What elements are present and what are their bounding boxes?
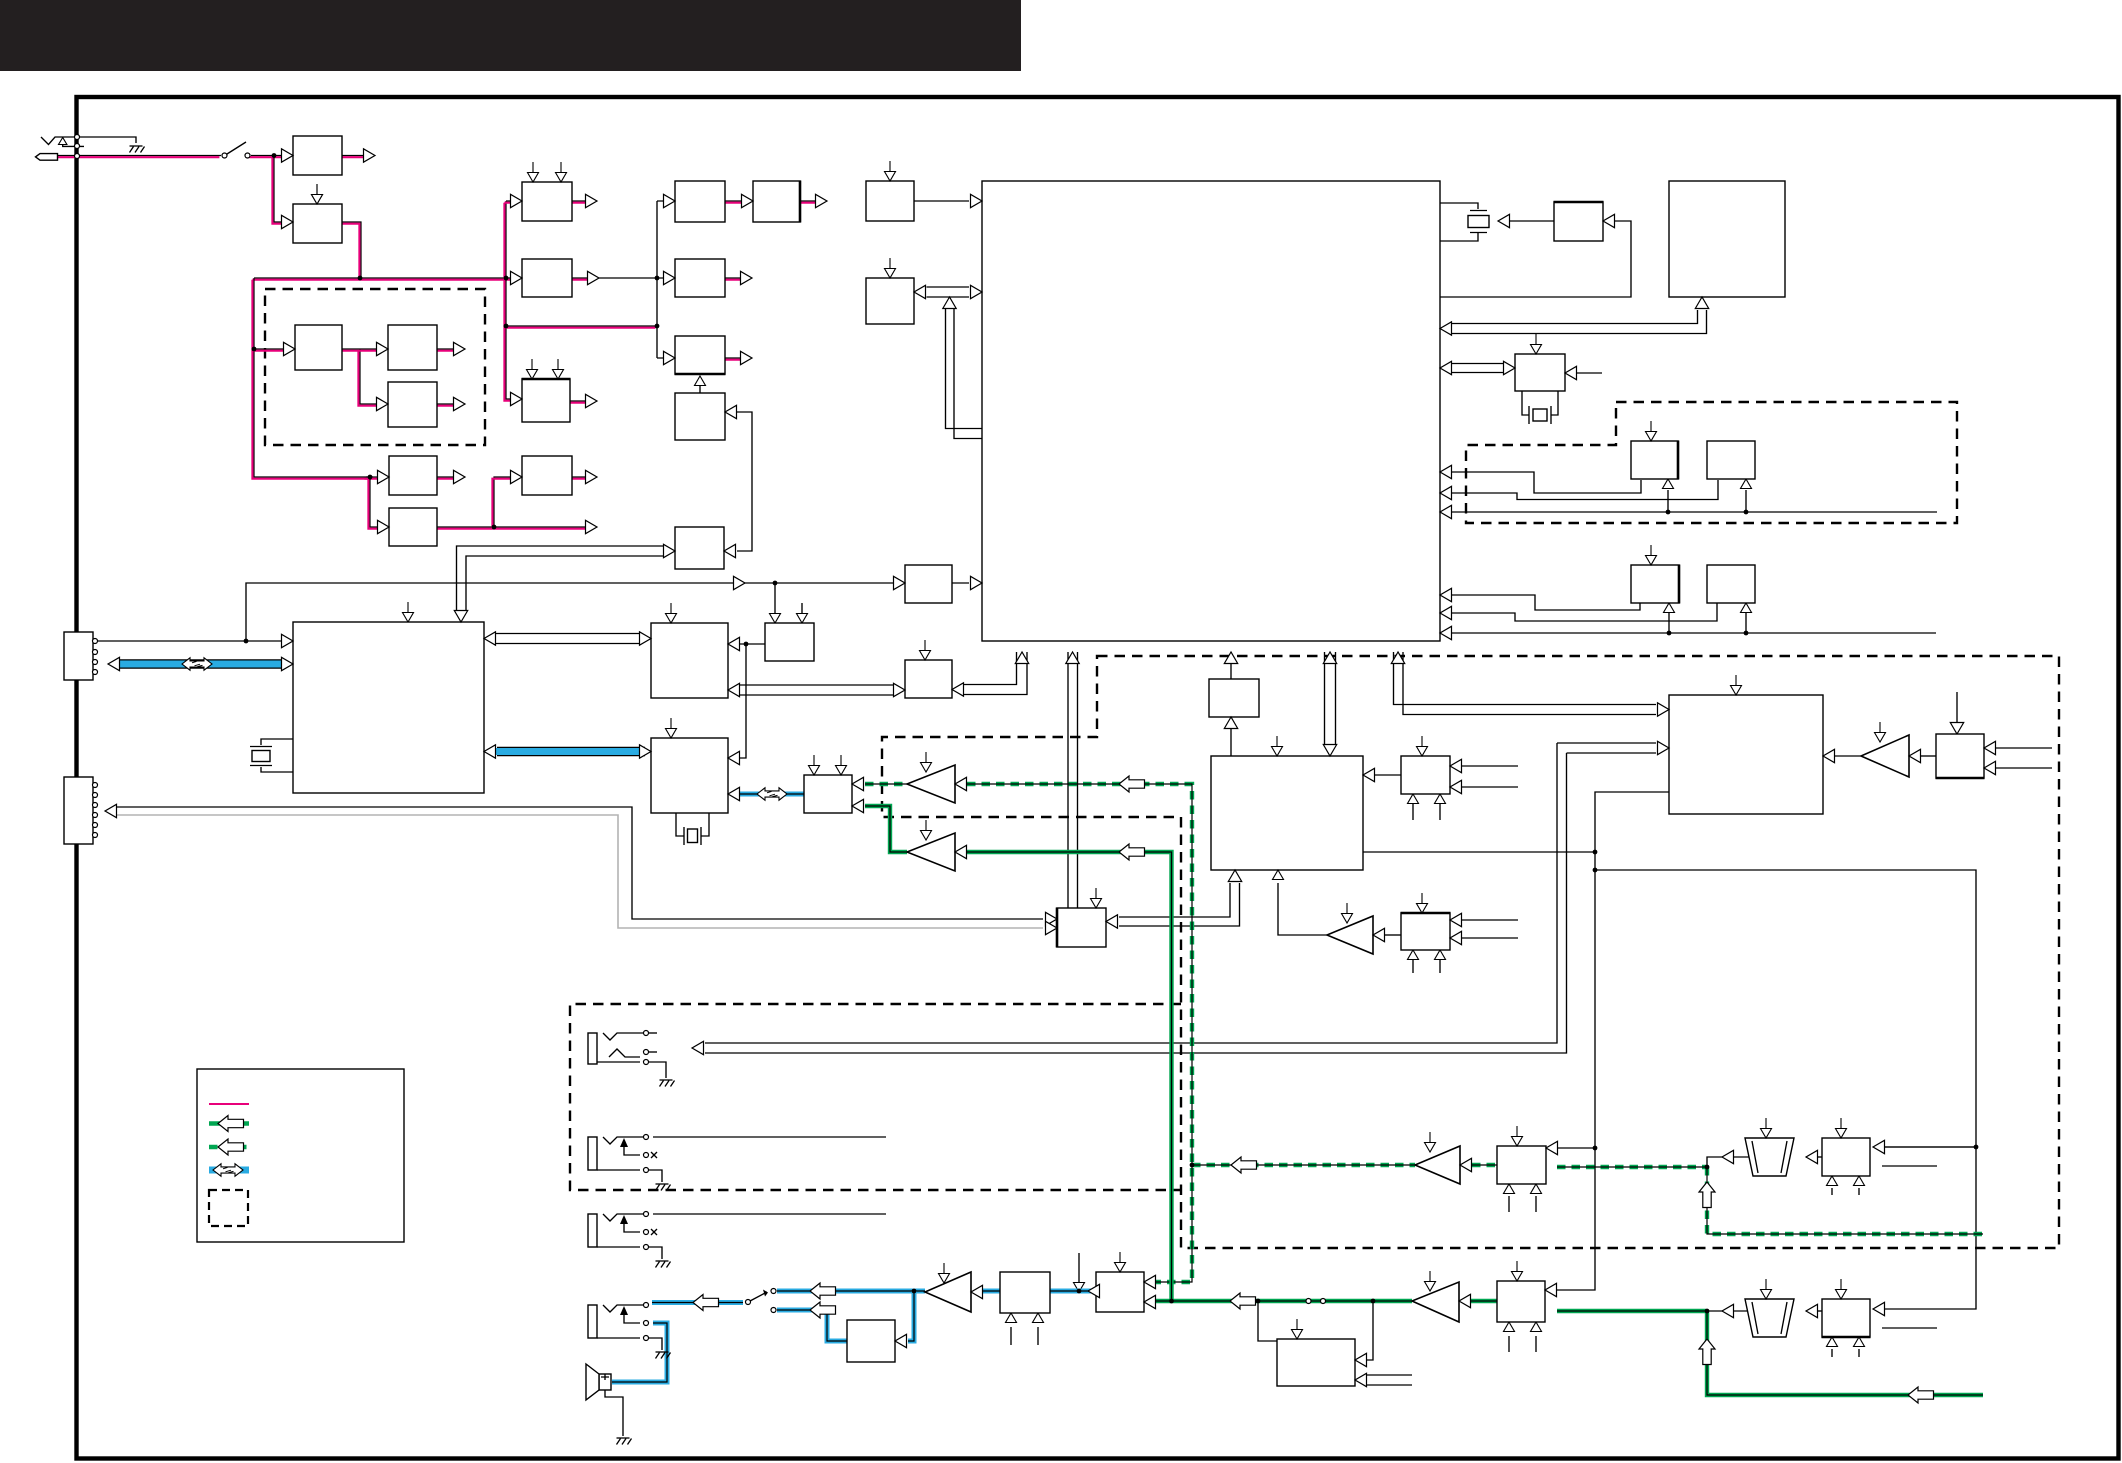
arrow boxA out — [586, 194, 598, 207]
box vol P2 — [1822, 1299, 1870, 1337]
node boxV right — [744, 642, 749, 647]
op-amp I3 — [1412, 1282, 1459, 1322]
arrow bus DSP SDRAM left — [484, 632, 496, 645]
arrow bus AB right — [1106, 915, 1118, 928]
wire magenta switch to box1 — [251, 155, 285, 157]
cable twist symbol W AA — [757, 788, 787, 800]
arrow into N right — [1603, 214, 1615, 227]
arrow box5 out — [454, 397, 466, 410]
arrow sysIC RS rail — [1440, 505, 1452, 518]
legend dashed box sample — [209, 1190, 248, 1226]
node green dashed T1 — [1705, 1165, 1710, 1170]
green dashed amp I1 to I2 — [1472, 1163, 1497, 1167]
arrow bus boxK right — [971, 285, 983, 298]
arrow into boxC — [511, 392, 523, 405]
wire DSP top stub arrow — [403, 602, 414, 622]
stub boxW top — [666, 718, 677, 738]
arrow into L1 right — [1823, 749, 1835, 762]
wire magenta box6a stub — [437, 476, 458, 478]
box DAC F2 — [1401, 913, 1450, 950]
arrow into I4 right upper — [1545, 1283, 1557, 1296]
arrow into boxG — [664, 271, 676, 284]
arrow F2 right a — [1450, 913, 1462, 926]
arrow into boxH — [664, 351, 676, 364]
arrow T2 out — [1722, 1304, 1734, 1317]
wire T1 output to green node — [1707, 1157, 1749, 1166]
wire amp K2 to L1 — [1835, 755, 1861, 757]
wire I2 right stubs bottom arrows — [1509, 1196, 1536, 1212]
node green solid mid — [1169, 1299, 1174, 1304]
wire K3 right stubs — [1996, 748, 2052, 768]
arrow into ampI3 — [1459, 1294, 1471, 1307]
box tuning ctrl — [675, 393, 725, 440]
bus system IC to mech controller L1 — [1394, 652, 1657, 715]
op-amp rec R — [907, 833, 955, 871]
wire magenta box1 output — [342, 155, 368, 157]
switch SW1 contacts — [222, 153, 227, 158]
wire T1 to P1 — [1806, 1156, 1822, 1158]
box IF amp C — [389, 508, 437, 546]
wire clockblock right to tuner IF — [731, 412, 752, 551]
stub L1 top — [1731, 675, 1742, 695]
wire rail to R S bottoms — [1452, 490, 1937, 512]
node green solid T2 — [1705, 1309, 1710, 1314]
green solid amp2 output to AA — [865, 806, 907, 852]
green dashed node vertical and rail — [1707, 1167, 1983, 1234]
wire J1 in from green — [1258, 1301, 1277, 1341]
wire magenta boxH output — [725, 357, 745, 359]
arrow bus V Y left — [728, 683, 740, 696]
bus DSP top to clock block — [457, 546, 664, 613]
stub boxAA top b — [836, 755, 847, 775]
stub boxV top — [666, 603, 677, 623]
stub ampI3 top — [1425, 1271, 1436, 1291]
antenna arrow head — [59, 138, 67, 145]
arrow bus L1 up to sysIC — [1391, 652, 1404, 664]
inline arrow green dashed vert — [1699, 1182, 1715, 1208]
green dashed rec out to AA — [865, 782, 907, 786]
arrow bus E2 sysIC down — [1323, 745, 1336, 757]
trapezoid DAC T1 — [1745, 1138, 1794, 1176]
wire magenta left drop x254 — [254, 278, 373, 477]
box FM demod — [675, 181, 725, 222]
arrow into AA green solid — [852, 799, 864, 812]
stub P2 top — [1836, 1279, 1847, 1299]
wire net to I2 — [1557, 1147, 1595, 1149]
arrow rail y583 inline — [734, 576, 746, 589]
box main micon DSP — [293, 622, 484, 793]
wire y583 system rail — [246, 583, 969, 641]
stub F2 top — [1417, 893, 1428, 913]
node y583 tap — [773, 581, 778, 586]
bus boxK to system IC — [927, 287, 970, 297]
system IC — [982, 181, 1440, 641]
arrow into box6a — [378, 470, 390, 483]
dashed group box main right section — [882, 656, 2059, 1248]
stub boxA top a — [528, 162, 539, 182]
box EEPROM N — [1554, 202, 1603, 241]
stub boxAA top a — [809, 755, 820, 775]
stub ampG1 top — [1342, 903, 1353, 923]
wire crystal X1 to system IC — [1440, 203, 1478, 241]
wire magenta boxC output — [570, 400, 590, 402]
arrow into ampH1 — [971, 1285, 983, 1298]
arrow sysIC S line — [1440, 486, 1452, 499]
legend box — [197, 1069, 404, 1242]
switch SW1 blade — [227, 142, 246, 154]
blue amp H1 to H3 — [983, 1289, 1000, 1294]
green solid amp I3 to I4 — [1471, 1299, 1497, 1303]
arrow into boxI right — [725, 405, 737, 418]
arrow F1 right a — [1450, 759, 1462, 772]
green solid node vertical and rail — [1707, 1311, 1983, 1395]
node D rail b — [1744, 631, 1749, 636]
wire connector pin to DSP — [98, 640, 284, 642]
cable twist symbol bus1 — [182, 658, 212, 670]
jack headphone sw 3 — [588, 1214, 597, 1247]
inline arrow green solid I3 — [1230, 1293, 1256, 1309]
arrow blue W left — [728, 787, 740, 800]
arrow into box3 — [284, 342, 296, 355]
wire P1 bottom stubs — [1832, 1188, 1859, 1195]
stub box2 top — [312, 184, 323, 204]
wire magenta to box6a — [366, 476, 380, 478]
arrow into box1 — [282, 149, 294, 162]
pins on border antenna — [75, 135, 80, 140]
arrow into AA green dashed — [852, 777, 864, 790]
blue branch to H2 — [908, 1291, 914, 1341]
arrow sysIC D1 line — [1440, 588, 1452, 601]
node conn dsp — [244, 639, 249, 644]
inline arrow blue lower throw — [810, 1302, 836, 1318]
arrow bus O up — [1695, 297, 1708, 309]
box DAC F1 — [1401, 756, 1450, 794]
box key matrix — [866, 278, 914, 324]
arrow gray into AB — [1046, 921, 1058, 934]
box RF amp — [293, 204, 342, 243]
wire vertical distribution x657 — [657, 201, 666, 358]
wire DSP crystal X3 — [261, 739, 293, 772]
arrow bus J1 right — [1355, 1373, 1367, 1386]
wire stepped line to boxS — [1452, 480, 1718, 500]
wire net to P1 — [1884, 1146, 1976, 1148]
legend green solid sample — [209, 1121, 249, 1125]
wire antenna lead — [63, 141, 84, 146]
arrow into H2 right — [895, 1334, 907, 1347]
bus blue front panel to DSP — [119, 659, 283, 668]
stub P1 top — [1836, 1118, 1847, 1138]
arrow into E2 right F1 — [1363, 768, 1375, 781]
wire magenta box3 to box4 box5 — [342, 349, 380, 404]
stub I4 top — [1512, 1261, 1523, 1281]
op-amp G1 — [1327, 916, 1373, 954]
arrow boxJ out to sysIC — [971, 194, 983, 207]
inline arrow blue upper throw — [810, 1283, 836, 1299]
arrow bus Y out left — [952, 683, 964, 696]
wire jack2 tip line — [653, 1136, 886, 1138]
arrow into box6b — [378, 520, 390, 533]
connector CN2 — [64, 777, 93, 844]
wire magenta branch to box3 — [254, 348, 287, 350]
blue jack to speaker — [612, 1323, 667, 1382]
box relay H2 — [847, 1320, 895, 1362]
wire antenna ground loop — [77, 137, 136, 143]
arrow into J1 right — [1355, 1353, 1367, 1366]
wire boxT top feeds — [775, 583, 802, 616]
blue switch to amp H1 — [777, 1289, 925, 1294]
wire magenta branch to boxA — [506, 201, 514, 278]
box protect J1 — [1277, 1339, 1355, 1386]
arrow into boxV right — [728, 637, 740, 650]
arrow bus O into sysIC — [1440, 322, 1452, 335]
arrow sysIC D rail — [1440, 626, 1452, 639]
wire P1 right lower stub — [1882, 1165, 1937, 1167]
wire T2 to P2 — [1806, 1310, 1822, 1312]
dashed group box headphone jack section — [570, 1004, 1181, 1190]
arrow into I2 right upper — [1546, 1141, 1558, 1154]
ground antenna — [130, 146, 145, 153]
stub boxAB top — [1091, 888, 1102, 908]
box IF amp B — [389, 456, 437, 495]
crystal X1 — [1470, 211, 1487, 233]
box micon AB — [1057, 908, 1106, 947]
node analog cross — [1593, 868, 1598, 873]
title header bar — [0, 0, 1021, 71]
wire F2 bottom stubs — [1413, 957, 1440, 973]
arrow into timer U — [894, 576, 906, 589]
arrow boxC out — [586, 394, 598, 407]
wire magenta box2 to rail — [342, 222, 361, 277]
node analog I2 tap — [1593, 1146, 1598, 1151]
wire remote black line to AB — [117, 807, 1043, 919]
bus system IC to boxP — [1452, 364, 1503, 373]
wire magenta branch to box2 — [274, 156, 285, 223]
wire magenta box7 output — [572, 476, 590, 478]
connector CN1 — [64, 632, 93, 680]
wire P1 right upper to net — [1882, 1146, 1976, 1148]
arrow boxG out — [741, 271, 753, 284]
wire magenta box5 stub — [437, 403, 458, 405]
arrow bus Y up to sysIC — [1015, 652, 1028, 664]
stub boxJ top — [885, 161, 896, 181]
bus system IC to micon boxAB — [1068, 652, 1078, 908]
jack headphones — [588, 1305, 597, 1338]
node rail a — [358, 276, 363, 281]
arrow bus E2 sysIC up — [1323, 652, 1336, 664]
arrow box6b out — [586, 520, 598, 533]
box RF attenuator — [293, 136, 342, 175]
arrow into H4 green solid — [1144, 1295, 1156, 1308]
arrow K3 right a — [1984, 741, 1996, 754]
node y326 a — [504, 324, 509, 329]
arrow boxF out — [816, 194, 828, 207]
bus blue thin DSP W to AA — [740, 792, 804, 797]
blue H3 to H4 — [1050, 1289, 1096, 1294]
arrow timer out to sysIC — [971, 576, 983, 589]
arrow black into AB — [1046, 912, 1058, 925]
box headphone amp H3 — [1000, 1272, 1050, 1313]
box audio DSP E1 — [1209, 679, 1259, 717]
wire magenta box4 stub — [437, 348, 458, 350]
arrow into boxF — [742, 194, 754, 207]
node net P1 tap — [1974, 1145, 1979, 1150]
box reset P — [1515, 354, 1565, 391]
arrow blue bus into W — [640, 745, 652, 758]
box ADC AA — [804, 775, 852, 813]
green dashed I2 to rear node — [1557, 1165, 1706, 1169]
legend blue sample — [209, 1167, 249, 1174]
trapezoid DAC T2 — [1745, 1299, 1794, 1337]
wire K3 top stub — [1956, 692, 1958, 722]
box SRAM R — [1631, 441, 1678, 479]
arrow box4 out — [454, 342, 466, 355]
arrow box6a out — [454, 470, 466, 483]
arrow K3 right b — [1984, 761, 1996, 774]
arrow into P2 from T2 gap — [1806, 1304, 1818, 1317]
box AGC — [522, 182, 572, 221]
arrow T1 out — [1722, 1150, 1734, 1163]
bus mech L1 from headphone jack — [705, 743, 1656, 1053]
crystal X4 — [684, 827, 701, 845]
bus boxV to boxY — [740, 685, 896, 695]
dashed group box tuner section — [265, 289, 485, 445]
stub boxK top — [885, 258, 896, 278]
bus blue E2 to DSP right — [497, 747, 645, 756]
box S meter — [675, 336, 725, 374]
stub T1 top — [1761, 1118, 1772, 1138]
arrow bus AB up to sysIC — [1066, 652, 1079, 664]
stub rec ampR top — [921, 820, 932, 840]
node green J1 out — [1371, 1299, 1376, 1304]
node y326 b — [655, 324, 660, 329]
wire P2 right lower stub — [1882, 1327, 1937, 1329]
box mixer 2 — [388, 325, 437, 370]
wire boxJ output to system IC — [914, 200, 969, 202]
arrow bus boxK left — [914, 285, 926, 298]
wire H3 bottom stubs — [1011, 1327, 1038, 1345]
node x254 tap — [252, 347, 257, 352]
connector circles on green monitor line — [1306, 1299, 1311, 1304]
box clock gen — [675, 527, 724, 569]
wire magenta boxE to boxF — [725, 200, 745, 202]
wire analog net cross to right — [1595, 870, 1976, 1309]
box line driver I4 — [1497, 1281, 1545, 1322]
wire box2 top stub — [312, 184, 323, 204]
arrow thin into E2 bottom — [1273, 870, 1284, 880]
box flash O — [1669, 181, 1785, 297]
wire magenta antenna input — [58, 155, 221, 157]
wire magenta boxF output — [800, 200, 820, 202]
jack headphone sw 2 — [588, 1137, 597, 1170]
wire P2 bottom stubs — [1832, 1349, 1859, 1357]
arrow into box2 — [282, 215, 294, 228]
wire boxW crystal X4 — [676, 813, 709, 836]
arrow bus jack1 into L1 — [1658, 741, 1670, 754]
green dashed monitor line I1 — [1192, 1163, 1415, 1167]
wire F2 to G1 amp — [1385, 934, 1401, 936]
wire H3 down arrow at junction — [1078, 1253, 1080, 1283]
wire L1 left stub to analog net — [1557, 792, 1669, 1290]
arrow into ampG1 — [1373, 928, 1385, 941]
arrow crystal osc N out — [1498, 214, 1510, 227]
op-amp rec L — [907, 765, 955, 803]
wire magenta to box6b — [370, 477, 380, 527]
wire magenta main rail y278 — [254, 277, 514, 279]
inline arrow green solid vert — [1699, 1339, 1715, 1365]
node D rail a — [1667, 631, 1672, 636]
arrow boxH out — [741, 351, 753, 364]
arrow into DSP y641 — [282, 634, 294, 647]
bus system IC to audio DSP E2 — [1325, 652, 1336, 745]
arrow bus DSP SDRAM right — [640, 632, 652, 645]
box timer — [905, 565, 952, 603]
wire stepped line to boxD2 — [1452, 603, 1717, 621]
arrow sysIC D2 line — [1440, 606, 1452, 619]
arrow box1 out — [364, 149, 376, 162]
node switch junction — [272, 153, 277, 158]
arrow into E1 bottom — [1224, 717, 1237, 729]
box line driver I2 — [1497, 1146, 1546, 1184]
box level det — [522, 379, 570, 422]
crystal X2 — [1529, 406, 1551, 424]
crystal X3 — [250, 747, 272, 766]
arrow into clockgen right — [724, 544, 736, 557]
node y477 tap — [368, 475, 373, 480]
wire magenta cross y326 — [506, 325, 657, 327]
stub boxC top b — [553, 359, 564, 379]
wire analog net to E2 — [1363, 851, 1595, 853]
box SRAM S — [1707, 441, 1755, 479]
blue headphone jack path — [652, 1300, 743, 1305]
speaker — [599, 1374, 611, 1390]
inline arrow green rail bottom — [1908, 1387, 1934, 1403]
stub I2 top — [1512, 1126, 1523, 1146]
wire rail black segment to FM block — [599, 277, 667, 279]
legend magenta sample — [209, 1103, 249, 1105]
box vol P1 — [1822, 1138, 1870, 1176]
op-amp I1 — [1415, 1146, 1460, 1184]
box RAM D2 — [1707, 565, 1755, 603]
box AM det — [675, 259, 725, 297]
bus DSP to SDRAM — [494, 634, 641, 644]
arrow into box4 — [377, 342, 389, 355]
node box6b tap — [492, 525, 497, 530]
op-amp H1 — [925, 1272, 971, 1312]
inline arrow green dashed top — [1119, 776, 1145, 792]
bus boxK branch down to system IC left edge — [946, 309, 983, 439]
op-amp K2 — [1861, 735, 1909, 777]
wire F1 right stubs — [1462, 766, 1518, 787]
arrow P right stub — [1565, 366, 1577, 379]
wire jack3 tip line — [653, 1213, 886, 1215]
blue H2 loop to switch lower throw — [777, 1310, 847, 1341]
box SDRAM — [651, 623, 728, 698]
wire rail to D1 D2 bottoms — [1452, 611, 1936, 633]
arrow into rec ampL — [955, 777, 967, 790]
node RS rail a — [1666, 510, 1671, 515]
wire magenta drop x506 — [506, 278, 514, 399]
box mech controller L1 — [1669, 695, 1823, 814]
arrow bus jack1 left end — [692, 1041, 704, 1054]
arrow into boxA — [511, 194, 523, 207]
node analog E2 tap — [1593, 850, 1598, 855]
arrow E1 up to sysIC — [1224, 652, 1237, 664]
inline arrow green dashed I1 — [1231, 1157, 1257, 1173]
box audio DSP E2 — [1211, 756, 1363, 870]
box port exp — [905, 660, 952, 698]
wire boxV right junction to boxT and boxW — [737, 644, 765, 758]
box detector — [522, 456, 572, 495]
